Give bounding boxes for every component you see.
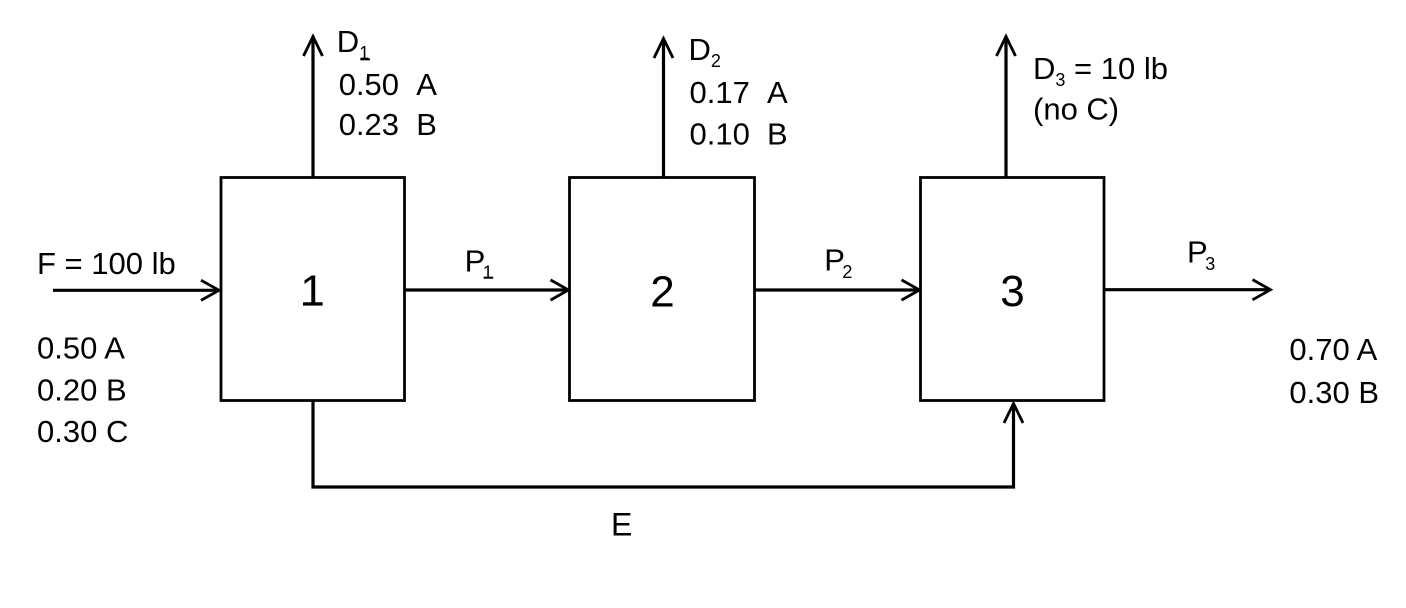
svg-text:3: 3 bbox=[1000, 267, 1024, 316]
svg-text:D2: D2 bbox=[689, 32, 721, 71]
svg-text:D3 = 10 lb: D3 = 10 lb bbox=[1033, 51, 1168, 90]
svg-text:0.17 A: 0.17 A bbox=[690, 75, 789, 110]
svg-text:0.23 B: 0.23 B bbox=[339, 107, 437, 142]
svg-text:0.20 B: 0.20 B bbox=[37, 372, 127, 407]
svg-text:P2: P2 bbox=[824, 243, 852, 282]
svg-text:0.30 C: 0.30 C bbox=[37, 414, 128, 449]
svg-text:D1: D1 bbox=[337, 24, 369, 63]
svg-text:P3: P3 bbox=[1187, 235, 1215, 274]
svg-text:0.30 B: 0.30 B bbox=[1289, 375, 1379, 410]
svg-text:0.70 A: 0.70 A bbox=[1289, 332, 1377, 367]
svg-text:0.10 B: 0.10 B bbox=[690, 117, 788, 152]
svg-text:(no C): (no C) bbox=[1033, 92, 1119, 127]
svg-text:2: 2 bbox=[650, 268, 674, 317]
svg-text:F = 100 lb: F = 100 lb bbox=[37, 246, 176, 281]
svg-text:1: 1 bbox=[300, 266, 324, 315]
svg-text:0.50 A: 0.50 A bbox=[339, 67, 438, 102]
svg-text:E: E bbox=[611, 507, 632, 543]
svg-text:0.50 A: 0.50 A bbox=[37, 331, 125, 366]
